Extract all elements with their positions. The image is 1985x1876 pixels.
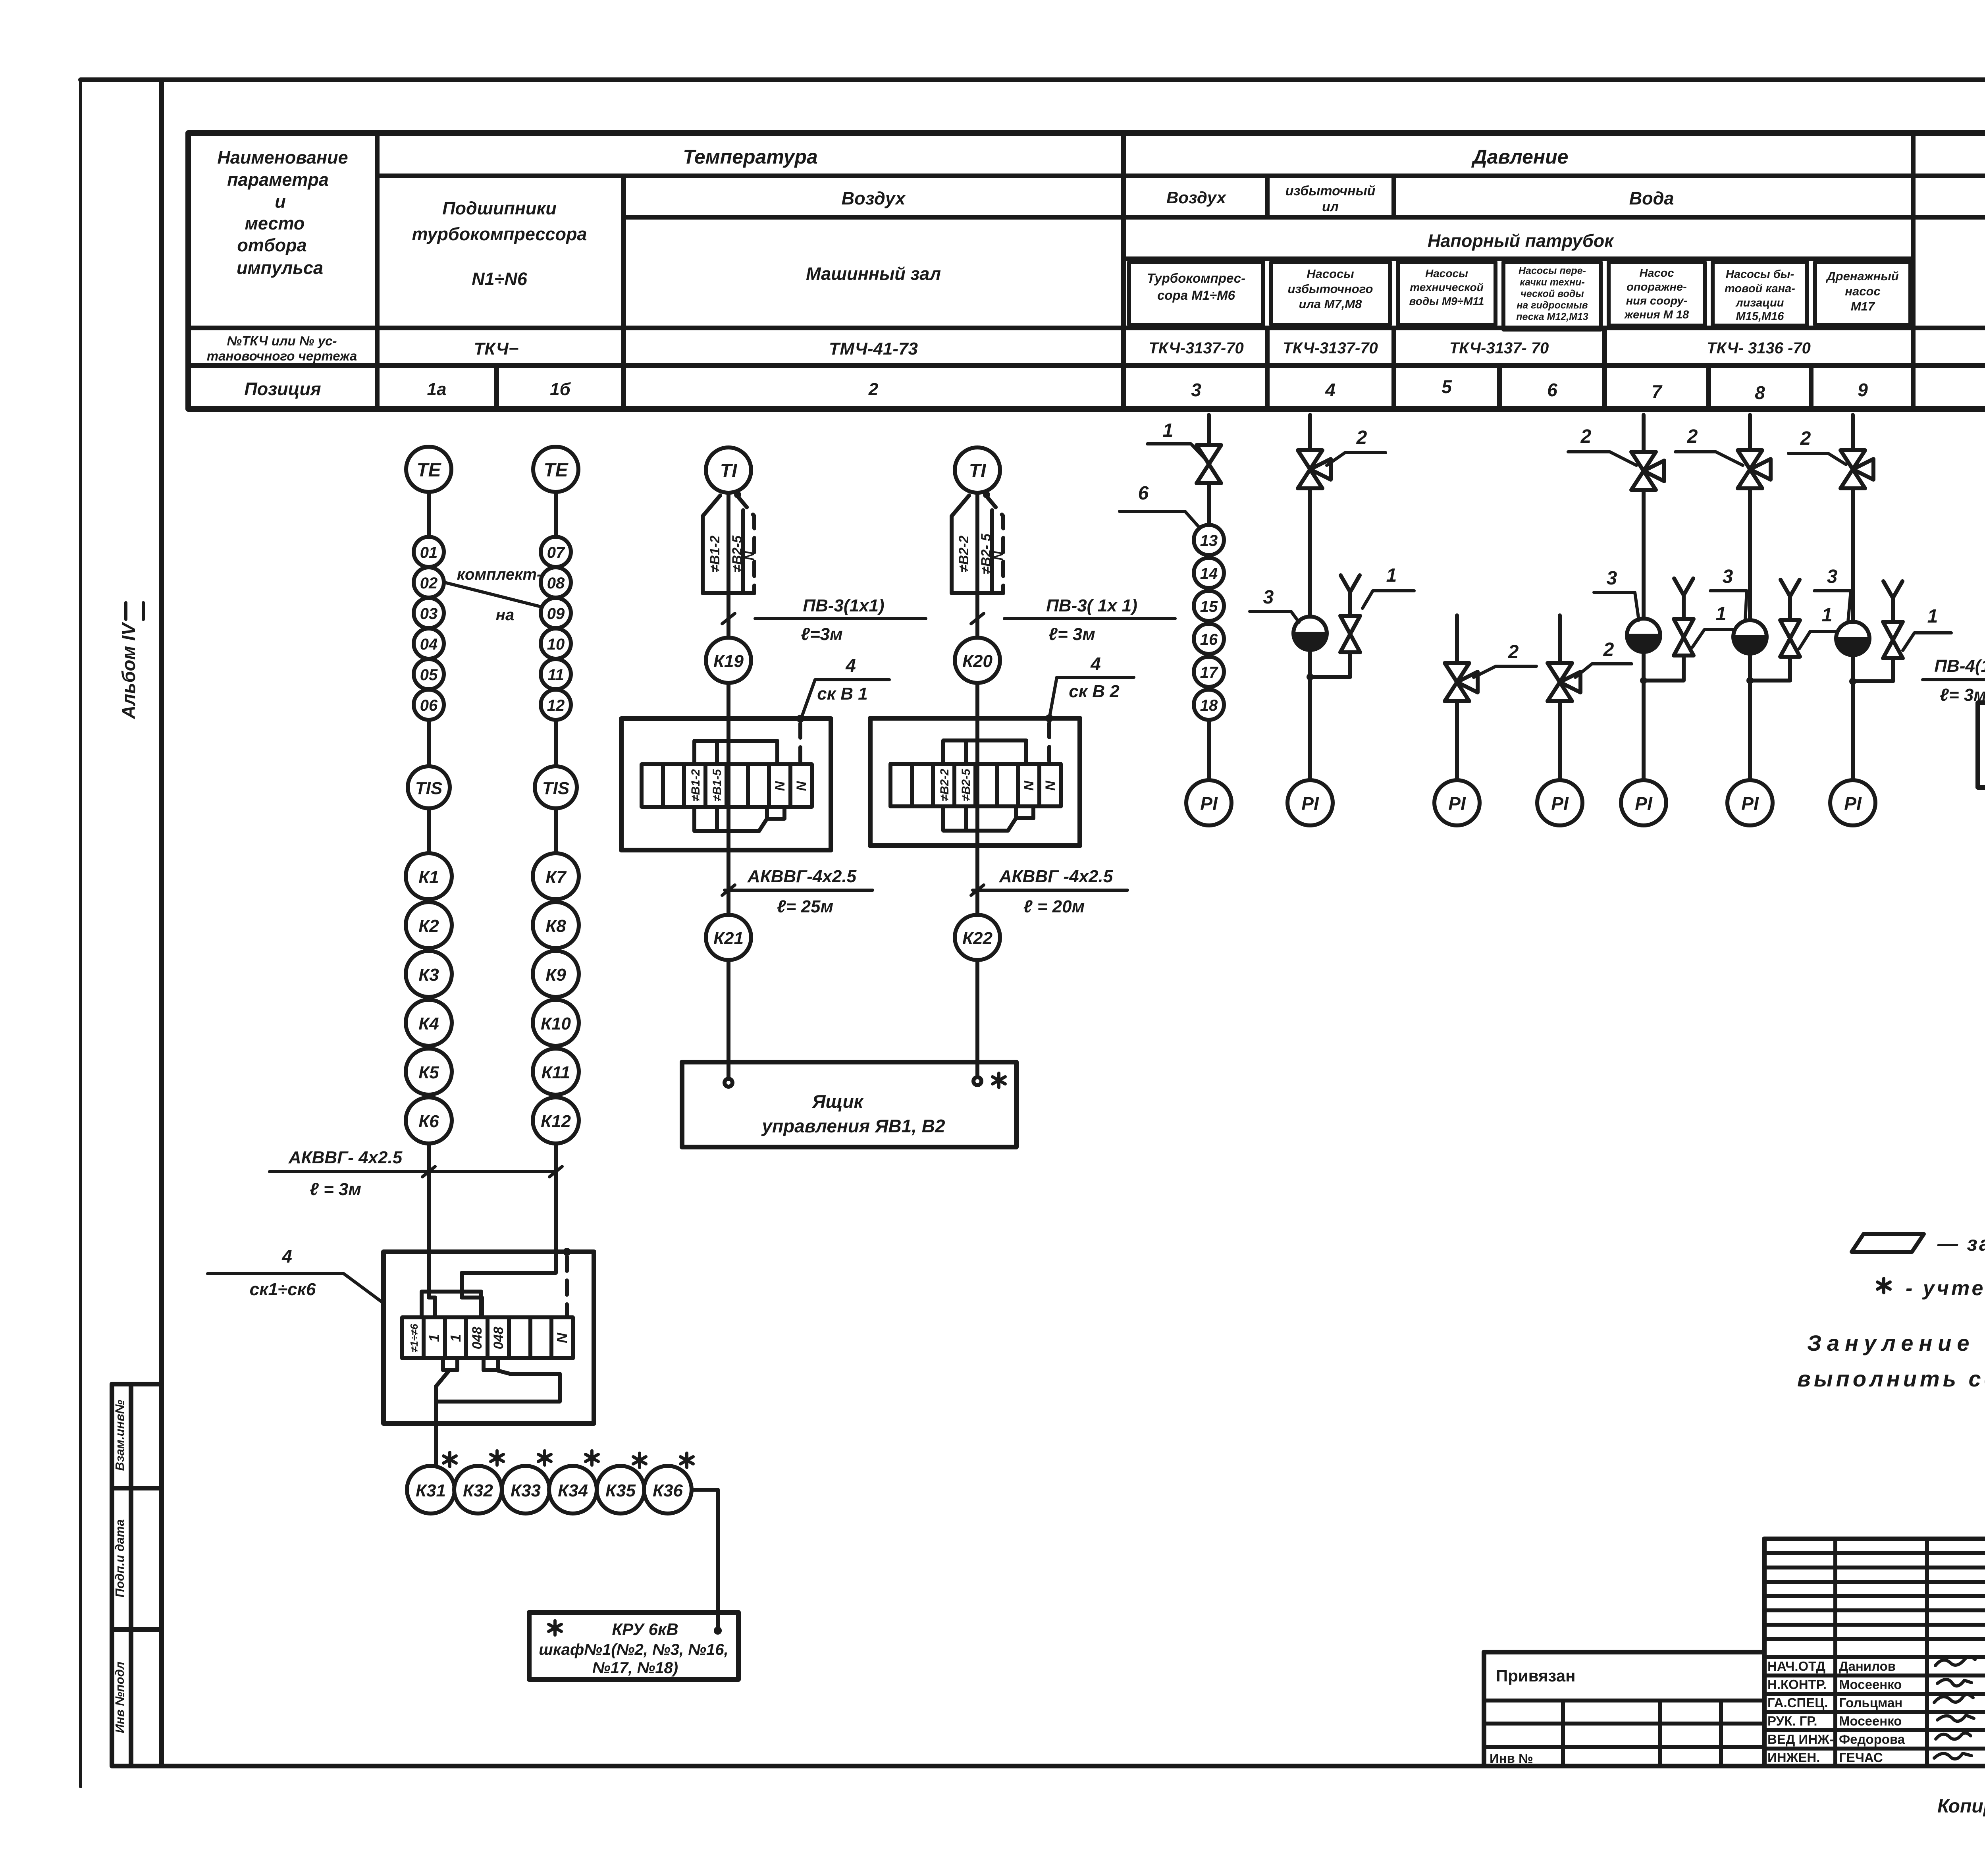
svg-text:К1: К1 [418, 868, 439, 887]
svg-text:М15,М16: М15,М16 [1736, 310, 1785, 323]
svg-text:Гольцман: Гольцман [1839, 1695, 1902, 1710]
svg-text:N: N [742, 551, 757, 561]
callout 1 (column E vent valve) [1692, 603, 1743, 647]
svg-text:ПВ-4(1х1): ПВ-4(1х1) [1934, 656, 1985, 676]
svg-text:N: N [773, 781, 788, 791]
signature table [1764, 1539, 1985, 1766]
svg-text:К35: К35 [605, 1481, 636, 1500]
cable label АКВВГ-4х2.5 l=20м [971, 867, 1127, 916]
junction box СК1-СК6 [384, 1252, 594, 1423]
svg-text:ТМЧ-41-73: ТМЧ-41-73 [829, 339, 918, 359]
svg-text:Насосы бы-: Насосы бы- [1726, 268, 1794, 281]
junction box СК В1 [621, 719, 831, 850]
sub-box Дренажный насос М17 [1815, 262, 1910, 325]
svg-text:7: 7 [1652, 381, 1663, 402]
pin circles 01-06 [414, 537, 444, 720]
svg-text:6: 6 [1138, 483, 1149, 504]
svg-text:— заполнить при привязке: — заполнить при привязке [1937, 1232, 1985, 1255]
sidebar table (Взам.инв№ / Подп.и дата / Инв № подл) [112, 1384, 162, 1766]
callout 1 (column G vent valve) [1903, 606, 1951, 650]
callout 1 (column F vent valve) [1799, 605, 1847, 649]
svg-text:2: 2 [1356, 427, 1367, 448]
terminal K20 [955, 638, 1000, 683]
svg-text:избыточного: избыточного [1287, 282, 1373, 296]
svg-text:5: 5 [1442, 376, 1452, 397]
svg-text:товой кана-: товой кана- [1725, 282, 1795, 295]
wire K36 to KRU box [692, 1490, 718, 1631]
cable fan-out flag TI2 [952, 491, 1006, 593]
valve 2 column G (3-way) [1840, 450, 1873, 488]
valve 2 column C (3-way) [1445, 663, 1478, 701]
instrument TIS1 [408, 766, 450, 808]
wire column A top [1207, 415, 1211, 524]
svg-text:Воздух: Воздух [842, 188, 906, 208]
svg-text:3: 3 [1191, 380, 1201, 400]
svg-text:К5: К5 [418, 1063, 439, 1082]
svg-text:3: 3 [1827, 566, 1838, 587]
svg-text:отбора: отбора [237, 235, 306, 255]
wire 06 to TIS1 [427, 720, 431, 766]
drawing frame left edge [159, 80, 164, 1766]
svg-text:3: 3 [1607, 568, 1617, 589]
valve 2 column D (3-way) [1548, 663, 1580, 701]
svg-text:сора М1÷М6: сора М1÷М6 [1157, 288, 1235, 303]
svg-text:Насосы: Насосы [1307, 267, 1354, 281]
terminal K21 [706, 915, 751, 960]
valve 2 column F (3-way) [1738, 450, 1771, 488]
sub-box Насосы избыточного ила М7,М8 [1271, 262, 1390, 325]
svg-text:N: N [1043, 780, 1058, 791]
svg-text:N: N [991, 551, 1006, 561]
gauge PI-F [1727, 780, 1773, 825]
separator vessel column B [1293, 617, 1327, 650]
svg-text:РУК. ГР.: РУК. ГР. [1767, 1714, 1817, 1728]
wire column G [1851, 415, 1855, 780]
svg-text:К9: К9 [545, 965, 566, 985]
svg-text:9: 9 [1858, 380, 1868, 400]
terminal K22 [955, 915, 1000, 960]
svg-text:АКВВГ -4х2.5: АКВВГ -4х2.5 [999, 867, 1113, 886]
cable label ПВ-4(1х1) l=3м (left) [1923, 656, 1985, 705]
gauge PI-G [1830, 780, 1875, 825]
callout 4 / ск В2 [1050, 654, 1134, 716]
control box Ящик управления ЯВ1,В2 [682, 1062, 1016, 1147]
svg-text:08: 08 [547, 575, 565, 592]
svg-text:≠В2-2: ≠В2-2 [938, 769, 951, 801]
svg-text:Копировал:: Копировал: [1937, 1796, 1985, 1817]
svg-text:Н.КОНТР.: Н.КОНТР. [1767, 1677, 1827, 1692]
svg-text:PI: PI [1448, 793, 1466, 814]
callout 1 (column B vent valve) [1363, 565, 1414, 608]
svg-text:К6: К6 [418, 1112, 439, 1131]
drawing frame bottom edge [162, 1764, 1985, 1768]
terminals K1-K6 [406, 853, 452, 1143]
node dot СК В1 [796, 715, 804, 723]
instrument TI1 [706, 447, 751, 493]
sheet outer border line left [79, 80, 82, 1787]
svg-text:6: 6 [1547, 380, 1557, 400]
svg-text:01: 01 [420, 544, 438, 561]
vent valve column G [1883, 581, 1903, 658]
svg-text:Насосы пере-: Насосы пере- [1519, 265, 1586, 276]
svg-text:насос: насос [1845, 284, 1880, 298]
vent valve column E [1674, 578, 1694, 656]
svg-text:TIS: TIS [542, 779, 569, 798]
junction box СК В2 [870, 718, 1080, 846]
svg-text:Дренажный: Дренажный [1825, 269, 1899, 283]
svg-text:13: 13 [1200, 532, 1218, 549]
svg-text:М17: М17 [1851, 299, 1875, 313]
svg-text:Воздух: Воздух [1166, 188, 1227, 207]
svg-text:12: 12 [547, 697, 565, 714]
svg-text:ТI: ТI [720, 461, 738, 482]
svg-text:Машинный зал: Машинный зал [806, 264, 941, 284]
cell Подшипники турбокомпрессора N1÷N6 [412, 198, 587, 289]
wire TE1 to 01 [427, 492, 431, 537]
valve 2 column B (3-way) [1298, 450, 1331, 488]
svg-text:К20: К20 [962, 652, 993, 671]
svg-text:АКВВГ-4х2.5: АКВВГ-4х2.5 [747, 867, 857, 886]
svg-text:Насос: Насос [1639, 267, 1674, 280]
node column F [1746, 677, 1754, 684]
svg-text:1: 1 [1927, 606, 1938, 627]
wire 18 to PI-A [1207, 720, 1211, 780]
svg-text:1б: 1б [550, 380, 571, 399]
svg-text:жения М 18: жения М 18 [1624, 308, 1689, 321]
svg-text:выполнить согласно ПУЭ -85: выполнить согласно ПУЭ -85 §1-7-39 [1797, 1366, 1985, 1391]
svg-text:Альбом IV: Альбом IV [118, 622, 139, 719]
separator vessel column F [1733, 620, 1767, 654]
svg-text:PI: PI [1551, 793, 1569, 814]
header table grid [188, 133, 1985, 409]
svg-text:2: 2 [1603, 639, 1614, 660]
svg-text:ния соору-: ния соору- [1626, 295, 1688, 307]
svg-text:ТЕ: ТЕ [416, 460, 441, 481]
cable label АКВВГ-4х2.5 l=25м [722, 867, 873, 916]
svg-text:11: 11 [547, 666, 564, 684]
wire K21 to control box [727, 960, 730, 1079]
wire column D [1558, 615, 1562, 780]
svg-text:N: N [1021, 780, 1037, 791]
svg-text:ТЕ: ТЕ [543, 460, 569, 481]
wire TI2 to K20 [975, 493, 979, 638]
callout 2 (column G) [1788, 428, 1846, 465]
callout 4 / ск1÷ск6 [208, 1246, 382, 1302]
cable fan-out flag TI1 [703, 491, 757, 593]
label комплект на with leader [445, 566, 542, 624]
cable label ПВ-3(1х1) l=3м (TI1) [722, 596, 926, 644]
sub-box Насосы перекачки технической воды М12,М13 [1503, 262, 1601, 330]
gauge PI-D [1537, 780, 1582, 825]
callout 4 / ск В1 [802, 655, 889, 716]
svg-text:ск В 2: ск В 2 [1069, 682, 1120, 701]
valve 1 column A [1197, 445, 1221, 483]
terminal K19 [706, 638, 751, 683]
callout 2 (column C) [1474, 642, 1536, 677]
asterisks above K31-K36 [443, 1451, 693, 1467]
svg-text:№ТКЧ или № ус-: №ТКЧ или № ус- [227, 334, 337, 348]
svg-text:Наименование: Наименование [217, 147, 348, 168]
node dot on box top [563, 1248, 571, 1256]
svg-text:PI: PI [1741, 793, 1759, 814]
branch wire vent to main column B [1310, 652, 1350, 677]
separator vessel column E [1627, 619, 1660, 652]
svg-text:ила М7,М8: ила М7,М8 [1299, 297, 1363, 311]
svg-text:Позиция: Позиция [244, 379, 321, 399]
svg-text:PI: PI [1844, 793, 1862, 814]
callout 3 (column F vessel) [1710, 566, 1747, 620]
svg-text:К12: К12 [541, 1112, 571, 1131]
привязан box [1484, 1652, 1764, 1766]
sub-box Турбокомпрессора М1÷М6 [1129, 262, 1263, 325]
svg-text:К36: К36 [653, 1481, 683, 1500]
svg-text:воды М9÷М11: воды М9÷М11 [1409, 295, 1484, 307]
svg-text:048: 048 [491, 1327, 506, 1350]
svg-text:КРУ 6кВ: КРУ 6кВ [612, 1620, 678, 1639]
callout 2 (column B) [1327, 427, 1386, 465]
svg-text:04: 04 [420, 636, 438, 653]
svg-text:≠1÷≠6: ≠1÷≠6 [408, 1324, 420, 1352]
svg-text:03: 03 [420, 605, 438, 623]
svg-text:ил: ил [1322, 199, 1339, 214]
svg-text:15: 15 [1200, 598, 1218, 615]
svg-text:Температура: Температура [683, 146, 818, 168]
callout 2 (column D) [1575, 639, 1632, 677]
svg-text:1: 1 [447, 1334, 464, 1342]
wire TI1 to K19 [727, 493, 730, 638]
junction box СК7 [1978, 703, 1985, 787]
svg-text:1а: 1а [427, 380, 447, 399]
svg-text:турбокомпрессора: турбокомпрессора [412, 224, 587, 244]
svg-text:PI: PI [1200, 793, 1218, 814]
svg-text:16: 16 [1200, 631, 1218, 648]
svg-text:TIS: TIS [415, 779, 442, 798]
wire K20 through box to K22 [975, 683, 979, 915]
wire column B [1308, 415, 1312, 780]
svg-text:ческой воды: ческой воды [1521, 288, 1584, 299]
svg-text:ТКЧ-3137- 70: ТКЧ-3137- 70 [1449, 339, 1549, 357]
svg-text:К2: К2 [418, 916, 439, 936]
svg-text:02: 02 [420, 575, 438, 592]
wire K12 down to terminal box [554, 1143, 558, 1252]
terminal strip housing top [422, 1292, 481, 1317]
svg-text:К32: К32 [463, 1481, 493, 1500]
instrument TE1 [406, 447, 451, 492]
wire TE2 to 07 [554, 492, 558, 537]
valve 2 column E (3-way) [1631, 452, 1664, 490]
gauge PI-E [1621, 780, 1666, 825]
svg-text:Федорова: Федорова [1839, 1732, 1905, 1747]
sub-box Насосы бытовой канализации М15,М16 [1713, 262, 1807, 326]
svg-text:ск1÷ск6: ск1÷ск6 [250, 1280, 316, 1299]
svg-text:ℓ = 20м: ℓ = 20м [1023, 897, 1085, 916]
gauge PI-C [1434, 780, 1480, 825]
svg-text:ГА.СПЕЦ.: ГА.СПЕЦ. [1767, 1695, 1828, 1710]
wire box to K31 [436, 1370, 449, 1466]
wire TIS1 to K1 [427, 808, 431, 853]
svg-text:ск В 1: ск В 1 [817, 684, 867, 704]
svg-text:2: 2 [1580, 426, 1592, 447]
gauge PI-A [1186, 780, 1231, 825]
svg-text:АКВВГ- 4х2.5: АКВВГ- 4х2.5 [288, 1148, 403, 1167]
svg-text:3: 3 [1723, 566, 1733, 587]
svg-text:К8: К8 [545, 916, 566, 936]
svg-text:Вода: Вода [1629, 188, 1674, 208]
svg-text:К31: К31 [416, 1481, 446, 1500]
svg-text:К22: К22 [962, 929, 993, 948]
svg-text:ИНЖЕН.: ИНЖЕН. [1767, 1750, 1820, 1765]
svg-text:05: 05 [420, 666, 438, 684]
callout 2 (column F) [1675, 426, 1743, 465]
svg-text:и: и [275, 191, 286, 212]
table header text Наименование параметра [217, 147, 348, 278]
svg-text:Давление: Давление [1471, 146, 1569, 168]
svg-text:1: 1 [1163, 420, 1174, 441]
svg-text:1: 1 [1822, 605, 1833, 626]
instrument TE2 [533, 447, 578, 492]
svg-text:ТКЧ- 3136 -70: ТКЧ- 3136 -70 [1707, 339, 1811, 357]
svg-text:качки техни-: качки техни- [1520, 277, 1584, 288]
svg-text:технической: технической [1410, 281, 1484, 293]
svg-text:шкаф№1(№2, №3, №16,: шкаф№1(№2, №3, №16, [539, 1641, 728, 1658]
svg-text:импульса: импульса [237, 258, 323, 278]
svg-text:песка М12,М13: песка М12,М13 [1516, 311, 1588, 322]
svg-text:Зануление электрооборудования: Зануление электрооборудования и приборов [1807, 1330, 1985, 1355]
svg-text:тановочного чертежа: тановочного чертежа [207, 349, 357, 363]
svg-text:место: место [245, 213, 305, 233]
node column E [1640, 677, 1647, 684]
svg-text:10: 10 [547, 636, 565, 653]
gauge PI-B [1287, 780, 1333, 825]
svg-text:К4: К4 [418, 1014, 439, 1033]
svg-text:опоражне-: опоражне- [1627, 281, 1687, 293]
wire K22 to control box [975, 960, 979, 1078]
callout 6 (impulse line) [1120, 483, 1201, 529]
svg-text:PI: PI [1301, 793, 1319, 814]
sub-box Насос опоражнения сооружения М18 [1609, 262, 1705, 326]
svg-text:Напорный патрубок: Напорный патрубок [1428, 231, 1614, 251]
svg-text:048: 048 [470, 1327, 485, 1350]
legend asterisk note [1877, 1277, 1985, 1300]
pin circles 07-12 [541, 537, 571, 720]
terminal strip cells СК В1 [642, 764, 812, 807]
svg-text:PI: PI [1635, 793, 1653, 814]
svg-text:Инв №: Инв № [1490, 1751, 1533, 1766]
svg-text:К11: К11 [542, 1063, 570, 1082]
svg-text:№17, №18): №17, №18) [592, 1659, 678, 1677]
svg-text:Подп.и дата: Подп.и дата [113, 1519, 127, 1598]
signature squiggles [1934, 1656, 1975, 1759]
svg-text:2: 2 [1508, 642, 1519, 663]
wire K6 lead inside box [429, 1252, 435, 1317]
svg-text:ТКЧ-3137-70: ТКЧ-3137-70 [1283, 339, 1378, 357]
svg-text:ТI: ТI [969, 461, 987, 482]
svg-text:лизации: лизации [1735, 297, 1784, 309]
svg-text:4: 4 [845, 655, 856, 676]
callout 2 (column E) [1568, 426, 1636, 465]
svg-text:параметра: параметра [227, 170, 329, 190]
svg-text:1: 1 [1386, 565, 1397, 586]
svg-text:Насосы: Насосы [1425, 267, 1468, 280]
svg-text:Привязан: Привязан [1496, 1666, 1575, 1685]
svg-text:06: 06 [420, 697, 438, 714]
instrument TIS2 [535, 766, 577, 808]
terminal strip cells СК В2 [890, 764, 1061, 806]
svg-text:НАЧ.ОТД: НАЧ.ОТД [1767, 1659, 1825, 1674]
callout 3 (column G vessel) [1814, 566, 1851, 622]
svg-text:Данилов: Данилов [1839, 1659, 1896, 1674]
svg-text:Инв №подл: Инв №подл [113, 1662, 127, 1733]
wire column F [1748, 415, 1752, 780]
cable label ПВ-3(1х1) l=3м (TI2) [971, 596, 1175, 644]
svg-text:4: 4 [281, 1246, 292, 1267]
svg-text:Мосеенко: Мосеенко [1839, 1714, 1902, 1728]
svg-text:комплект-: комплект- [457, 566, 542, 583]
svg-text:Мосеенко: Мосеенко [1839, 1677, 1902, 1692]
svg-text:К34: К34 [558, 1481, 588, 1500]
strip foot СК В1 [767, 807, 784, 819]
node column G [1849, 678, 1856, 685]
svg-text:07: 07 [547, 544, 565, 561]
svg-text:2: 2 [1687, 426, 1698, 447]
svg-text:Взам.инв№: Взам.инв№ [113, 1400, 127, 1471]
svg-text:ℓ = 3м: ℓ = 3м [310, 1180, 361, 1199]
strip foot СК В2 [1016, 806, 1033, 818]
svg-text:управления ЯВ1, В2: управления ЯВ1, В2 [761, 1116, 945, 1136]
svg-text:ПВ-3(1х1): ПВ-3(1х1) [803, 596, 884, 615]
wire K6 down to terminal box [427, 1143, 431, 1252]
svg-text:≠В1-5: ≠В1-5 [711, 769, 724, 802]
svg-text:1: 1 [1716, 603, 1727, 625]
vent valve column F [1780, 580, 1800, 657]
svg-text:ТКЧ−: ТКЧ− [474, 339, 519, 359]
instrument TI2 [955, 447, 1000, 493]
svg-text:К10: К10 [541, 1014, 571, 1033]
dashed neutral lead in box [565, 1257, 569, 1317]
svg-text:17: 17 [1200, 664, 1218, 681]
svg-text:4: 4 [1325, 380, 1336, 400]
svg-text:≠В2-2: ≠В2-2 [956, 536, 971, 572]
svg-text:2: 2 [1800, 428, 1811, 449]
svg-text:К7: К7 [545, 868, 567, 887]
sub-box Насосы технической воды М9÷М11 [1398, 262, 1495, 325]
svg-text:К33: К33 [511, 1481, 541, 1500]
signature rows text [1767, 1659, 1905, 1765]
callout 1 (column A valve) [1147, 420, 1204, 457]
cable label АКВВГ-4х2.5 l=3м [270, 1148, 562, 1199]
dashed neutral lead СК В1 [798, 723, 802, 764]
svg-text:К21: К21 [713, 929, 744, 948]
svg-text:8: 8 [1755, 382, 1765, 403]
branch wire vent to main column F [1750, 657, 1790, 681]
margin mark Альбом IV rotated [118, 603, 143, 719]
strip housing СК В2 [943, 740, 1026, 831]
svg-text:N1÷N6: N1÷N6 [472, 269, 528, 289]
wire K19 through box to K21 [727, 683, 730, 915]
branch wire vent to main column G [1853, 658, 1893, 681]
dashed neutral lead СК В2 [1047, 723, 1051, 764]
svg-text:ℓ= 25м: ℓ= 25м [777, 897, 833, 916]
pin circles 13-18 [1194, 525, 1224, 720]
svg-text:ВЕД ИНЖ-: ВЕД ИНЖ- [1767, 1732, 1834, 1747]
sheet outer border line top [81, 77, 1985, 82]
vent valve column B [1340, 575, 1360, 652]
legend placeholder flag [1852, 1234, 1924, 1252]
svg-text:2: 2 [868, 380, 879, 399]
svg-text:ГЕЧАС: ГЕЧАС [1839, 1750, 1883, 1765]
svg-text:3: 3 [1263, 587, 1274, 608]
svg-text:Ящик: Ящик [812, 1091, 864, 1112]
